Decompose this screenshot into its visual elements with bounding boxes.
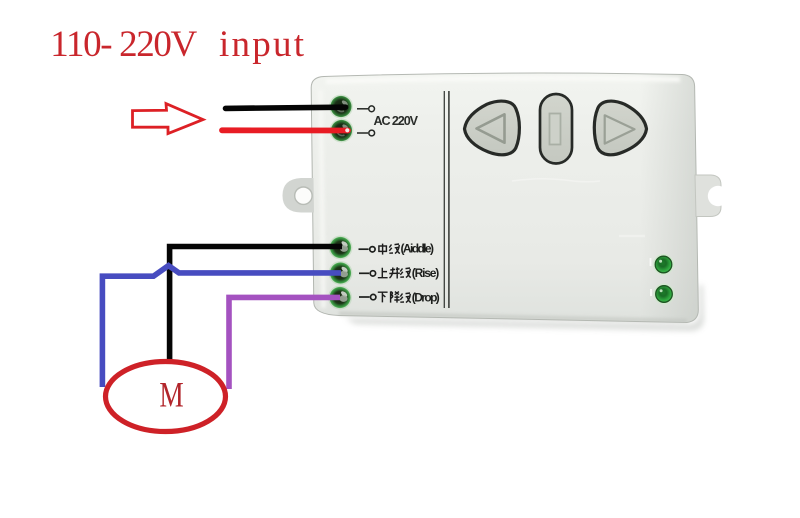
mounting ear left	[283, 178, 315, 213]
arrow: input direction indicator	[133, 104, 204, 134]
svg-text:110- 220V: 110- 220V	[50, 24, 197, 65]
label 上升线(Rise)	[378, 266, 440, 280]
label 下降线(Drop)	[378, 290, 440, 304]
terminal symbol row middle	[359, 247, 376, 252]
terminal T2 (AC in, red)	[330, 119, 354, 143]
terminal T1 (AC in, black)	[329, 95, 353, 119]
body left bevel highlight	[318, 90, 326, 308]
svg-text:(Aiddle): (Aiddle)	[401, 242, 435, 256]
wire: purple drop line to motor	[229, 297, 340, 389]
svg-text:input: input	[219, 24, 305, 65]
button: middle (stop)	[540, 94, 572, 164]
body bottom edge shading	[339, 312, 687, 323]
glint at red wire tip	[345, 128, 349, 132]
wire: red AC input	[222, 127, 348, 133]
terminal T3 (middle)	[329, 236, 353, 260]
terminal symbol row drop	[359, 294, 376, 299]
divider line pair	[444, 91, 449, 308]
title: 110-220V input	[50, 24, 305, 65]
LED 2	[651, 284, 675, 305]
motor: red ellipse	[106, 362, 226, 432]
terminal symbol AC top	[357, 106, 375, 112]
wire: black AC input	[226, 107, 346, 108]
LED 1	[651, 254, 675, 275]
terminal T5 (drop)	[328, 286, 352, 310]
terminal symbol row rise	[359, 271, 376, 276]
terminal symbol AC bottom	[357, 130, 375, 136]
shadow under device	[345, 285, 704, 331]
button: right (down)	[594, 101, 646, 155]
svg-text:(Rise): (Rise)	[412, 266, 440, 280]
wire: black middle line to motor	[170, 247, 342, 361]
mounting ear right	[695, 175, 728, 217]
svg-text:AC 220V: AC 220V	[374, 114, 419, 128]
terminal T4 (rise)	[329, 261, 353, 285]
svg-text:(Drop): (Drop)	[412, 290, 440, 304]
label 中线(Aiddle)	[379, 242, 434, 256]
faint scratch marks on body	[512, 179, 600, 182]
wire: blue rise line with hop to motor	[102, 266, 341, 387]
svg-text:M: M	[159, 375, 183, 414]
device body	[311, 73, 698, 322]
body top bevel highlight	[326, 76, 680, 84]
button: left (up)	[465, 101, 520, 155]
